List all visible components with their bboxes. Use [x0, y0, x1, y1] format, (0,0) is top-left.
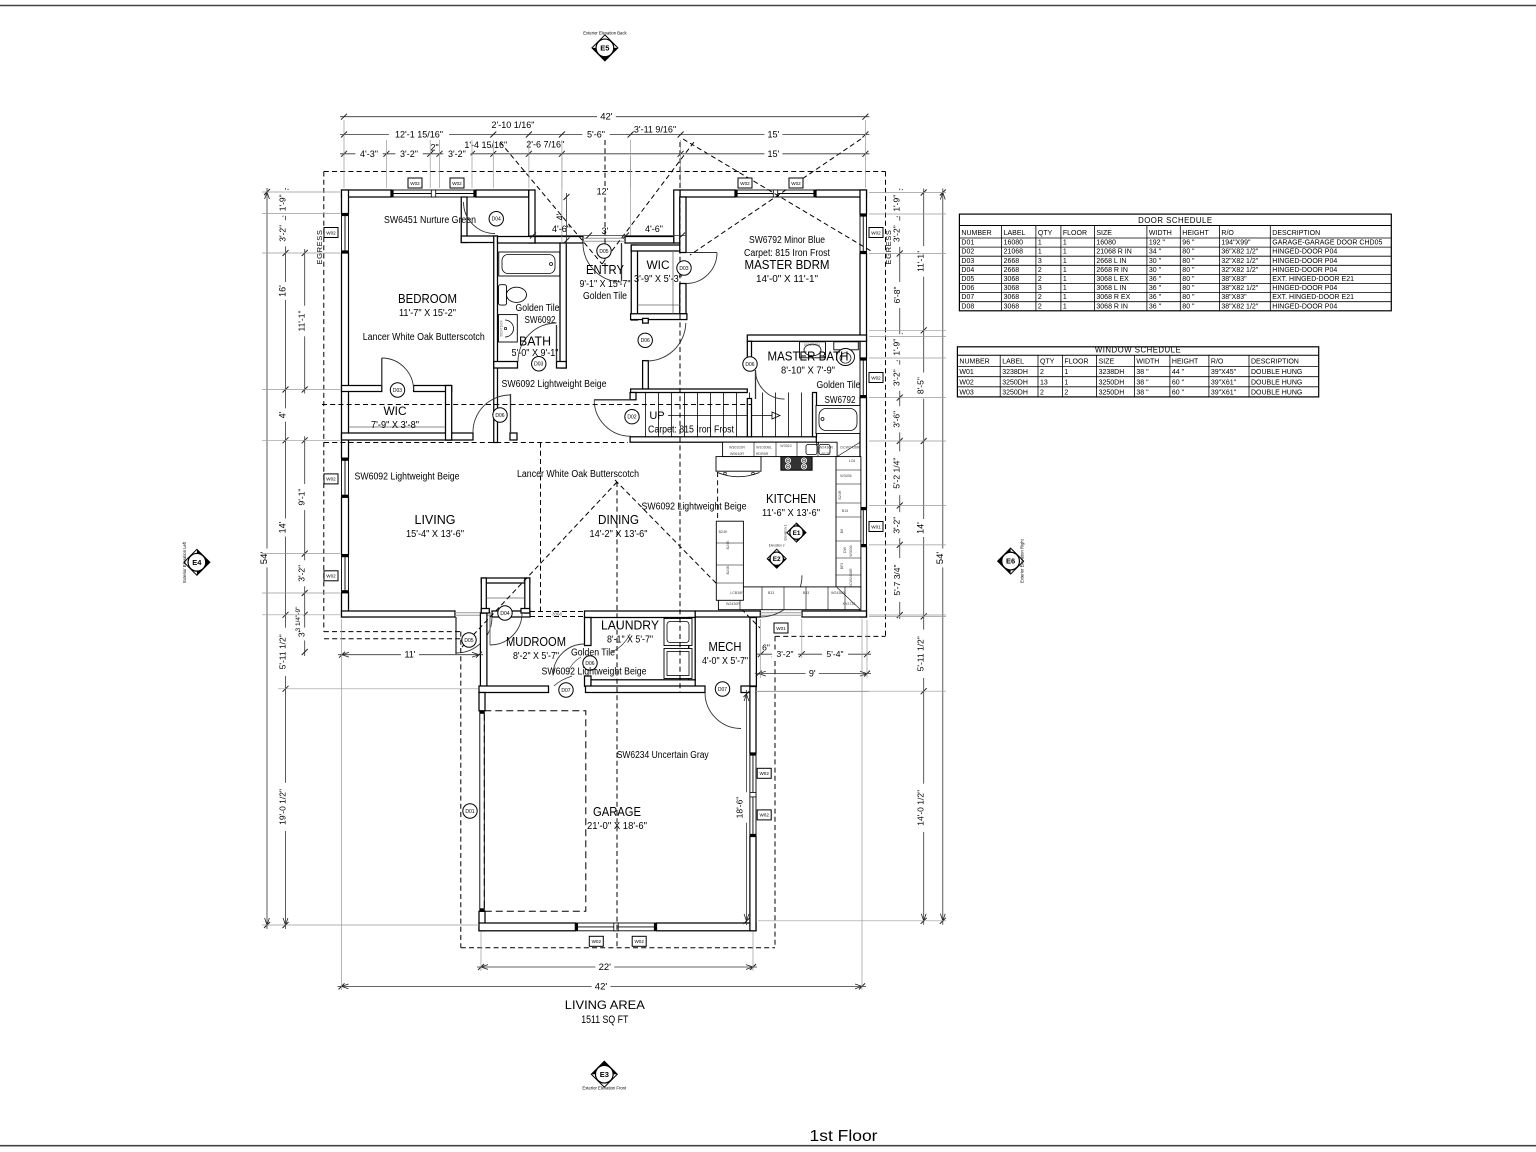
svg-text:30 ": 30 " [1149, 258, 1162, 265]
svg-text:3068 R IN: 3068 R IN [1096, 303, 1128, 310]
svg-text:3068: 3068 [1004, 303, 1020, 310]
svg-text:60 ": 60 " [1172, 389, 1185, 396]
svg-text:80 ": 80 " [1182, 258, 1195, 265]
svg-text:80 ": 80 " [1182, 303, 1195, 310]
svg-text:Lancer White Oak Butterscotch: Lancer White Oak Butterscotch [363, 332, 485, 343]
svg-text:LCB36R: LCB36R [730, 591, 744, 595]
svg-text:B12R: B12R [822, 452, 831, 456]
svg-text:3068: 3068 [552, 611, 563, 616]
svg-text:WIC: WIC [647, 258, 670, 272]
svg-text:14': 14' [916, 522, 926, 534]
svg-text:7'-9" X 3'-8": 7'-9" X 3'-8" [371, 420, 419, 431]
svg-text:15': 15' [768, 149, 780, 159]
svg-text:SW6092 Lightweight Beige: SW6092 Lightweight Beige [355, 472, 460, 483]
svg-text:36 ": 36 " [1149, 276, 1162, 283]
svg-text:D06: D06 [641, 338, 650, 344]
svg-text:LABEL: LABEL [1004, 230, 1026, 237]
svg-text:R/O: R/O [1221, 230, 1234, 237]
svg-text:16080: 16080 [1096, 240, 1116, 247]
svg-text:BF3: BF3 [840, 563, 844, 570]
svg-text:SW6092 Lightweight Beige: SW6092 Lightweight Beige [542, 667, 647, 678]
svg-text:W02: W02 [871, 375, 881, 380]
svg-text:HEIGHT: HEIGHT [1172, 359, 1199, 366]
svg-text:2: 2 [1040, 369, 1044, 376]
svg-text:3: 3 [1038, 285, 1042, 292]
svg-text:D06: D06 [961, 285, 974, 292]
svg-text:SIZE: SIZE [1099, 359, 1115, 366]
svg-text:3'-2": 3'-2" [278, 225, 288, 242]
svg-text:194"X99": 194"X99" [1221, 240, 1251, 247]
svg-text:2: 2 [1038, 294, 1042, 301]
svg-text:1511 SQ FT: 1511 SQ FT [581, 1014, 628, 1026]
svg-text:6": 6" [762, 643, 770, 653]
svg-text:1: 1 [1063, 285, 1067, 292]
svg-text:2668 L IN: 2668 L IN [1096, 258, 1126, 265]
svg-text:W02: W02 [791, 181, 801, 186]
svg-text:LC6: LC6 [849, 459, 856, 463]
svg-text:D01: D01 [961, 240, 974, 247]
svg-text:42': 42' [600, 112, 613, 123]
svg-text:44 ": 44 " [1172, 369, 1185, 376]
svg-text:3': 3' [297, 630, 307, 637]
svg-text:W2436R: W2436R [831, 591, 845, 595]
svg-text:B24K: B24K [726, 565, 730, 574]
svg-text:W02: W02 [871, 230, 881, 235]
svg-text:9'-1" X 15'-7": 9'-1" X 15'-7" [580, 278, 631, 290]
svg-text:1: 1 [1063, 267, 1067, 274]
svg-text:W02: W02 [959, 379, 974, 386]
svg-text:HINGED-DOOR P04: HINGED-DOOR P04 [1272, 258, 1337, 265]
svg-text:42': 42' [595, 981, 608, 992]
svg-text:Golden Tile: Golden Tile [583, 291, 627, 302]
svg-text:1: 1 [1038, 249, 1042, 256]
svg-text:DCW2436R: DCW2436R [840, 446, 860, 450]
svg-text:E6: E6 [1006, 557, 1015, 566]
svg-text:LABEL: LABEL [1002, 359, 1024, 366]
svg-text:1'-9": 1'-9" [892, 195, 902, 212]
svg-text:14'-0" X 11'-1": 14'-0" X 11'-1" [756, 273, 818, 285]
svg-text:W1030BL: W1030BL [756, 446, 772, 450]
svg-text:WIC: WIC [384, 404, 407, 418]
svg-text:SW6092 Lightweight Beige: SW6092 Lightweight Beige [502, 379, 607, 390]
svg-text:19'-0 1/2": 19'-0 1/2" [278, 789, 288, 825]
svg-text:Golden Tile: Golden Tile [516, 303, 560, 314]
svg-text:3068 L EX: 3068 L EX [1096, 276, 1129, 283]
svg-text:2: 2 [1038, 276, 1042, 283]
svg-text:1: 1 [1063, 258, 1067, 265]
svg-text:34 ": 34 " [1149, 249, 1162, 256]
svg-text:MASTER BATH: MASTER BATH [768, 349, 849, 364]
svg-text:80 ": 80 " [1182, 267, 1195, 274]
svg-text:8'-5": 8'-5" [916, 377, 926, 394]
svg-text:2: 2 [1040, 389, 1044, 396]
svg-text:Exterior Elevation Right: Exterior Elevation Right [1020, 538, 1025, 583]
svg-text:38"X83": 38"X83" [1221, 294, 1247, 301]
svg-text:8'-2" X 5'-7": 8'-2" X 5'-7" [513, 650, 559, 662]
svg-text:80 ": 80 " [1182, 285, 1195, 292]
svg-text:B24K: B24K [719, 530, 728, 534]
svg-text:Exterior Elevation Back: Exterior Elevation Back [583, 31, 627, 36]
svg-text:D04: D04 [500, 611, 509, 617]
svg-text:5'-11 1/2": 5'-11 1/2" [916, 636, 926, 671]
svg-text:D07: D07 [961, 294, 974, 301]
svg-text:DESCRIPTION: DESCRIPTION [1251, 359, 1299, 366]
svg-text:5'-2 1/4": 5'-2 1/4" [892, 458, 902, 489]
svg-text:15': 15' [768, 130, 780, 140]
svg-text:WINDOW SCHEDULE: WINDOW SCHEDULE [1095, 346, 1181, 355]
svg-text:60 ": 60 " [1172, 379, 1185, 386]
svg-text:Elevation 1: Elevation 1 [784, 524, 788, 540]
svg-text:DOUBLE HUNG: DOUBLE HUNG [1251, 389, 1302, 396]
svg-text:ENTRY: ENTRY [586, 263, 625, 277]
svg-text:11'-6" X 13'-6": 11'-6" X 13'-6" [762, 507, 820, 519]
svg-text:W0610R: W0610R [730, 452, 744, 456]
svg-text:SW6234 Uncertain Gray: SW6234 Uncertain Gray [617, 750, 709, 761]
svg-text:3238DH: 3238DH [1002, 369, 1028, 376]
svg-text:Carpet: 815 Iron Frost: Carpet: 815 Iron Frost [648, 425, 734, 436]
svg-text:39"X61": 39"X61" [1211, 389, 1237, 396]
svg-text:1st Floor: 1st Floor [810, 1128, 879, 1145]
svg-text:3068: 3068 [1004, 285, 1020, 292]
svg-text:R/O: R/O [1211, 359, 1224, 366]
svg-text:1: 1 [1063, 276, 1067, 283]
svg-text:BEDROOM: BEDROOM [398, 291, 457, 306]
svg-text:D04: D04 [961, 267, 974, 274]
svg-text:D05: D05 [961, 276, 974, 283]
svg-text:D03: D03 [393, 388, 402, 394]
svg-text:80 ": 80 " [1182, 249, 1195, 256]
svg-text:3068: 3068 [1004, 276, 1020, 283]
svg-text:3068: 3068 [1004, 294, 1020, 301]
svg-text:D05: D05 [464, 638, 473, 644]
svg-text:4'-6": 4'-6" [552, 224, 570, 234]
svg-text:38 ": 38 " [1136, 389, 1149, 396]
svg-text:W03: W03 [959, 389, 974, 396]
svg-text:B24R: B24R [838, 490, 842, 499]
svg-text:EGRESS: EGRESS [315, 230, 324, 265]
svg-text:D05: D05 [599, 249, 608, 255]
svg-text:4'-0" X 5'-7": 4'-0" X 5'-7" [702, 655, 748, 667]
svg-text:22': 22' [599, 962, 612, 973]
svg-text:KY2736: KY2736 [843, 602, 856, 606]
svg-text:B15: B15 [842, 509, 848, 513]
svg-text:11': 11' [404, 650, 415, 660]
svg-text:3'-2": 3'-2" [400, 149, 418, 159]
svg-text:16080: 16080 [1004, 240, 1024, 247]
svg-text:3'-2": 3'-2" [448, 149, 466, 159]
svg-text:11'-7" X 15'-2": 11'-7" X 15'-2" [399, 307, 456, 319]
svg-text:D02: D02 [961, 249, 974, 256]
svg-text:1'-4 15/16": 1'-4 15/16" [464, 140, 507, 150]
svg-text:E2: E2 [773, 556, 781, 563]
svg-text:B24K: B24K [726, 540, 730, 549]
svg-text:3: 3 [1038, 258, 1042, 265]
svg-text:3'-2": 3'-2" [892, 225, 902, 242]
svg-text:3068 L IN: 3068 L IN [1096, 285, 1126, 292]
svg-text:12': 12' [597, 187, 609, 197]
svg-text:1'-9": 1'-9" [278, 194, 288, 211]
svg-text:192 ": 192 " [1149, 240, 1166, 247]
svg-text:1'-9": 1'-9" [892, 339, 902, 356]
svg-text:B6: B6 [840, 529, 844, 533]
svg-text:W3036: W3036 [840, 474, 851, 478]
svg-text:16': 16' [278, 285, 288, 297]
svg-text:W02: W02 [452, 181, 462, 186]
svg-text:38"X83": 38"X83" [1221, 276, 1247, 283]
svg-text:B33: B33 [768, 591, 774, 595]
svg-text:HINGED-DOOR P04: HINGED-DOOR P04 [1272, 267, 1337, 274]
svg-text:GARAGE: GARAGE [593, 804, 641, 819]
svg-text:14': 14' [278, 521, 288, 533]
svg-text:W02: W02 [759, 813, 769, 818]
svg-text:MECH: MECH [709, 640, 742, 654]
svg-text:FLOOR: FLOOR [1064, 359, 1088, 366]
svg-text:WIDTH: WIDTH [1136, 359, 1159, 366]
svg-text:5'-6": 5'-6" [587, 130, 605, 140]
svg-text:WIDTH: WIDTH [1149, 230, 1172, 237]
svg-text:36"X82 1/2": 36"X82 1/2" [1221, 249, 1258, 256]
svg-text:3'-2": 3'-2" [892, 517, 902, 534]
svg-text:D01: D01 [465, 809, 474, 815]
svg-text:30 ": 30 " [1149, 267, 1162, 274]
svg-text:D07: D07 [561, 688, 570, 694]
svg-text:QTY: QTY [1038, 230, 1053, 237]
svg-text:5'-7 3/4": 5'-7 3/4" [892, 564, 902, 595]
svg-text:SW6092: SW6092 [525, 315, 556, 326]
svg-text:EGRESS: EGRESS [884, 230, 893, 265]
svg-text:D04: D04 [492, 217, 501, 223]
svg-text:D02: D02 [627, 415, 636, 421]
svg-text:DW: DW [843, 546, 847, 553]
svg-text:W02: W02 [410, 181, 420, 186]
svg-text:Exterior Elevation Left: Exterior Elevation Left [182, 541, 187, 583]
svg-text:KITCHEN: KITCHEN [766, 491, 816, 506]
svg-text:32"X82 1/2": 32"X82 1/2" [1221, 258, 1258, 265]
svg-text:SW6451 Nurture Green: SW6451 Nurture Green [384, 215, 476, 226]
svg-text:GARAGE-GARAGE DOOR CHD05: GARAGE-GARAGE DOOR CHD05 [1272, 240, 1382, 247]
svg-text:D03: D03 [534, 362, 543, 368]
svg-text:Golden Tile: Golden Tile [571, 648, 615, 659]
svg-text:EXT. HINGED-DOOR E21: EXT. HINGED-DOOR E21 [1272, 294, 1354, 301]
svg-text:4'-3": 4'-3" [360, 149, 378, 159]
svg-text:MASTER BDRM: MASTER BDRM [745, 257, 830, 272]
svg-text:1: 1 [1038, 240, 1042, 247]
svg-text:HEIGHT: HEIGHT [1182, 230, 1209, 237]
svg-text:QTY: QTY [1040, 359, 1055, 366]
svg-text:38"X82 1/2": 38"X82 1/2" [1221, 303, 1258, 310]
svg-text:W02: W02 [592, 939, 602, 944]
svg-text:1: 1 [1063, 303, 1067, 310]
svg-text:39"X61": 39"X61" [1211, 379, 1237, 386]
svg-text:38 ": 38 " [1136, 369, 1149, 376]
svg-text:2668: 2668 [1004, 267, 1020, 274]
svg-text:Golden Tile: Golden Tile [817, 380, 861, 391]
svg-text:D06: D06 [495, 413, 504, 419]
svg-text:1: 1 [1063, 240, 1067, 247]
svg-text:SW6792 Minor Blue: SW6792 Minor Blue [749, 235, 825, 246]
svg-text:DESCRIPTION: DESCRIPTION [1272, 230, 1320, 237]
svg-text:3'-11 9/16": 3'-11 9/16" [634, 124, 676, 134]
svg-text:5'-4": 5'-4" [827, 649, 844, 659]
svg-text:4': 4' [555, 213, 565, 220]
svg-text:EXT. HINGED-DOOR E21: EXT. HINGED-DOOR E21 [1272, 276, 1354, 283]
svg-text:18'-6": 18'-6" [735, 797, 745, 819]
svg-text:E1: E1 [793, 530, 801, 537]
svg-text:1: 1 [1064, 369, 1068, 376]
svg-text:HDR6R: HDR6R [756, 452, 769, 456]
svg-text:38 ": 38 " [1136, 379, 1149, 386]
svg-text:21068 R IN: 21068 R IN [1096, 249, 1131, 256]
svg-text:1: 1 [1063, 294, 1067, 301]
svg-text:2'-10 1/16": 2'-10 1/16" [492, 120, 535, 130]
svg-text:21'-0" X 18'-6": 21'-0" X 18'-6" [587, 820, 647, 832]
svg-text:HINGED-DOOR P04: HINGED-DOOR P04 [1272, 303, 1337, 310]
svg-text:1: 1 [1063, 249, 1067, 256]
svg-text:8'-1" X 5'-7": 8'-1" X 5'-7" [607, 634, 653, 646]
svg-text:W02: W02 [326, 574, 336, 579]
svg-text:2: 2 [1038, 303, 1042, 310]
svg-text:UP: UP [649, 410, 664, 422]
svg-text:NUMBER: NUMBER [961, 230, 991, 237]
svg-text:D03: D03 [961, 258, 974, 265]
svg-text:NUMBER: NUMBER [959, 359, 989, 366]
svg-text:D08: D08 [961, 303, 974, 310]
svg-text:3'-9" X 5'-3": 3'-9" X 5'-3" [634, 274, 682, 285]
svg-text:W02: W02 [634, 939, 644, 944]
svg-text:80 ": 80 " [1182, 276, 1195, 283]
svg-text:2: 2 [1038, 267, 1042, 274]
svg-text:D03: D03 [679, 266, 688, 272]
svg-text:14'-2" X 13'-6": 14'-2" X 13'-6" [590, 528, 648, 540]
svg-text:W3036: W3036 [849, 545, 853, 556]
svg-text:3250DH: 3250DH [1002, 379, 1028, 386]
svg-text:54': 54' [935, 552, 946, 565]
svg-text:Lancer White Oak Butterscotch: Lancer White Oak Butterscotch [517, 469, 639, 480]
svg-text:W02: W02 [326, 230, 336, 235]
svg-text:W3010: W3010 [780, 444, 791, 448]
svg-text:FLOOR: FLOOR [1063, 230, 1087, 237]
svg-text:LAUNDRY: LAUNDRY [601, 619, 660, 633]
svg-text:W2436R: W2436R [819, 446, 833, 450]
svg-text:E3: E3 [600, 1070, 609, 1079]
svg-text:13: 13 [1040, 379, 1048, 386]
svg-text:5'-11 1/2": 5'-11 1/2" [278, 634, 288, 669]
svg-text:W02: W02 [759, 771, 769, 776]
svg-text:14'-0 1/2": 14'-0 1/2" [916, 790, 926, 826]
svg-text:36 ": 36 " [1149, 303, 1162, 310]
svg-text:3': 3' [602, 226, 609, 236]
svg-text:LIVING AREA: LIVING AREA [565, 998, 645, 1012]
svg-text:8'-10" X 7'-9": 8'-10" X 7'-9" [781, 365, 835, 377]
svg-text:SW6792: SW6792 [825, 395, 856, 406]
svg-text:DINING: DINING [598, 512, 639, 527]
svg-text:3'-2": 3'-2" [892, 369, 902, 386]
svg-text:12'-1 15/16": 12'-1 15/16" [395, 130, 443, 140]
svg-text:2668: 2668 [1004, 258, 1020, 265]
svg-text:5624T1924: 5624T1924 [500, 320, 504, 336]
svg-text:2'-6 7/16": 2'-6 7/16" [526, 140, 564, 150]
svg-text:39"X45": 39"X45" [1211, 369, 1237, 376]
svg-text:W01: W01 [959, 369, 974, 376]
svg-text:E4: E4 [192, 558, 202, 567]
svg-text:38"X82 1/2": 38"X82 1/2" [1221, 285, 1258, 292]
svg-text:9': 9' [809, 669, 816, 679]
svg-text:2: 2 [1064, 389, 1068, 396]
svg-text:Exterior Elevation Front: Exterior Elevation Front [582, 1086, 627, 1091]
svg-text:3250DH: 3250DH [1099, 379, 1125, 386]
svg-text:3238DH: 3238DH [1099, 369, 1125, 376]
svg-text:DOOR SCHEDULE: DOOR SCHEDULE [1138, 216, 1213, 225]
svg-text:32"X82 1/2": 32"X82 1/2" [1221, 267, 1258, 274]
svg-text:3068 R EX: 3068 R EX [1096, 294, 1130, 301]
svg-text:HINGED-DOOR P04: HINGED-DOOR P04 [1272, 285, 1337, 292]
svg-text:LIVING: LIVING [415, 512, 456, 527]
svg-text:2668 R IN: 2668 R IN [1096, 267, 1128, 274]
svg-text:MUDROOM: MUDROOM [506, 635, 566, 649]
svg-text:B33: B33 [803, 591, 809, 595]
svg-text:D07: D07 [718, 687, 727, 693]
svg-text:3250DH: 3250DH [1002, 389, 1028, 396]
svg-text:11'-1": 11'-1" [916, 251, 926, 272]
svg-text:D06: D06 [745, 362, 754, 368]
svg-text:5'-0" X 9'-1": 5'-0" X 9'-1" [512, 347, 559, 359]
svg-text:9'-1": 9'-1" [297, 489, 307, 506]
svg-text:DOUBLE HUNG: DOUBLE HUNG [1251, 369, 1302, 376]
svg-text:3250DH: 3250DH [1099, 389, 1125, 396]
svg-text:11'-1": 11'-1" [297, 310, 307, 331]
svg-text:HINGED-DOOR P04: HINGED-DOOR P04 [1272, 249, 1337, 256]
svg-text:5624T1924: 5624T1924 [804, 343, 820, 347]
svg-text:6'-8": 6'-8" [892, 287, 902, 304]
svg-text:W01: W01 [871, 524, 881, 529]
svg-text:1: 1 [1064, 379, 1068, 386]
svg-text:DOUBLE HUNG: DOUBLE HUNG [1251, 379, 1302, 386]
svg-text:W02: W02 [740, 181, 750, 186]
svg-text:SW6092 Lightweight Beige: SW6092 Lightweight Beige [642, 502, 747, 513]
svg-text:3'-2": 3'-2" [777, 649, 794, 659]
svg-text:DCW2436R: DCW2436R [849, 568, 853, 588]
svg-text:Elevation 2: Elevation 2 [769, 544, 785, 548]
svg-text:W30102R: W30102R [729, 446, 745, 450]
svg-text:4': 4' [278, 411, 288, 418]
svg-text:SIZE: SIZE [1096, 230, 1112, 237]
svg-text:96 ": 96 " [1182, 240, 1195, 247]
svg-text:2": 2" [430, 143, 438, 153]
svg-text:W02: W02 [326, 477, 336, 482]
svg-text:80 ": 80 " [1182, 294, 1195, 301]
svg-text:E5: E5 [600, 44, 609, 53]
svg-text:36 ": 36 " [1149, 285, 1162, 292]
svg-text:15'-4" X 13'-6": 15'-4" X 13'-6" [406, 528, 464, 540]
svg-text:21068: 21068 [1004, 249, 1024, 256]
svg-text:W2430R: W2430R [726, 602, 740, 606]
svg-text:36 ": 36 " [1149, 294, 1162, 301]
svg-text:4'-6": 4'-6" [645, 224, 663, 234]
svg-text:3'-6": 3'-6" [892, 411, 902, 428]
svg-text:W01: W01 [776, 626, 786, 631]
svg-text:3'-2": 3'-2" [297, 565, 307, 582]
